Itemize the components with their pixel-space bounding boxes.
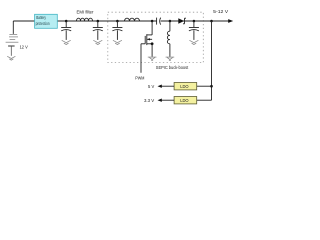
node D junction MOSFET drain [151, 20, 154, 23]
battery 12V plates [6, 34, 19, 42]
capacitor C2 [93, 27, 103, 29]
wire main rail from coupling cap to output arrow [161, 20, 229, 22]
diode D1 schottky [178, 18, 184, 24]
ground C5 [189, 40, 198, 44]
svg-text:EMI filter: EMI filter [77, 10, 94, 16]
ground C2 [93, 40, 102, 44]
wire to L2 [169, 21, 171, 31]
node F junction output cap [193, 20, 196, 23]
battery protection block [35, 14, 58, 28]
battery negative terminal bar [8, 45, 15, 47]
capacitor C3 [112, 27, 122, 29]
wire main rail from protection block to coupling cap [57, 20, 156, 22]
node A junction after protection [65, 20, 68, 23]
svg-text:protection: protection [36, 21, 51, 26]
ground C3 [113, 40, 122, 44]
svg-text:12 V: 12 V [20, 44, 29, 50]
wire PWM gate [140, 44, 142, 73]
wire LDO1 output [161, 85, 175, 87]
node C junction SEPIC input [116, 20, 119, 23]
svg-text:Battery: Battery [36, 15, 46, 20]
node G output junction [210, 20, 213, 23]
wire LDO2 input [197, 99, 212, 101]
node B junction after EMI inductor [97, 20, 100, 23]
ground battery [7, 56, 15, 60]
wire drain [151, 21, 153, 35]
capacitor C3 drop wire [116, 21, 118, 27]
svg-text:5 V: 5 V [148, 84, 155, 89]
LDO regulator U1 [174, 83, 197, 90]
capacitor C5 [189, 27, 199, 29]
wire output dropper to LDOs [211, 21, 213, 100]
node Q1 source dot [151, 42, 154, 45]
inductor L2 SEPIC vertical [167, 31, 170, 44]
arrow 3.3V [158, 99, 162, 102]
wire from battery corner to protection block [13, 20, 34, 22]
Q1 body arrow [147, 38, 150, 40]
node H junction LDO1 feed [210, 85, 213, 88]
arrow 5V [158, 85, 162, 88]
LDO regulator U2 [174, 97, 197, 104]
svg-text:LDO: LDO [180, 84, 189, 89]
inductor L1 SEPIC [125, 18, 140, 21]
capacitor C1 drop wire [65, 21, 67, 27]
wire source to ground [151, 44, 153, 57]
arrow output 5-12V [228, 19, 233, 23]
node E junction L2 [169, 20, 172, 23]
dashed box SEPIC converter [108, 12, 204, 62]
transistor Q1 MOSFET [141, 34, 152, 45]
wire LDO1 input [197, 85, 212, 87]
capacitor C1 [61, 27, 71, 29]
svg-text:PWM: PWM [135, 76, 144, 81]
svg-text:3.3 V: 3.3 V [144, 98, 155, 103]
svg-text:LDO: LDO [180, 98, 189, 103]
capacitor C2 drop wire [97, 21, 99, 27]
capacitor C4 coupling [156, 18, 158, 25]
capacitor C5 drop wire [193, 21, 195, 27]
wire LDO2 output [161, 99, 175, 101]
inductor EMI filter [77, 18, 93, 21]
wire battery to ground [10, 46, 12, 56]
ground Q1 [148, 57, 157, 60]
svg-text:SEPIC buck-boost: SEPIC buck-boost [156, 65, 189, 71]
ground L2 [166, 57, 175, 60]
ground C1 [62, 40, 71, 44]
svg-text:5-12 V: 5-12 V [213, 9, 229, 15]
wire L2 to ground [169, 44, 171, 57]
wire battery drop [12, 21, 14, 34]
